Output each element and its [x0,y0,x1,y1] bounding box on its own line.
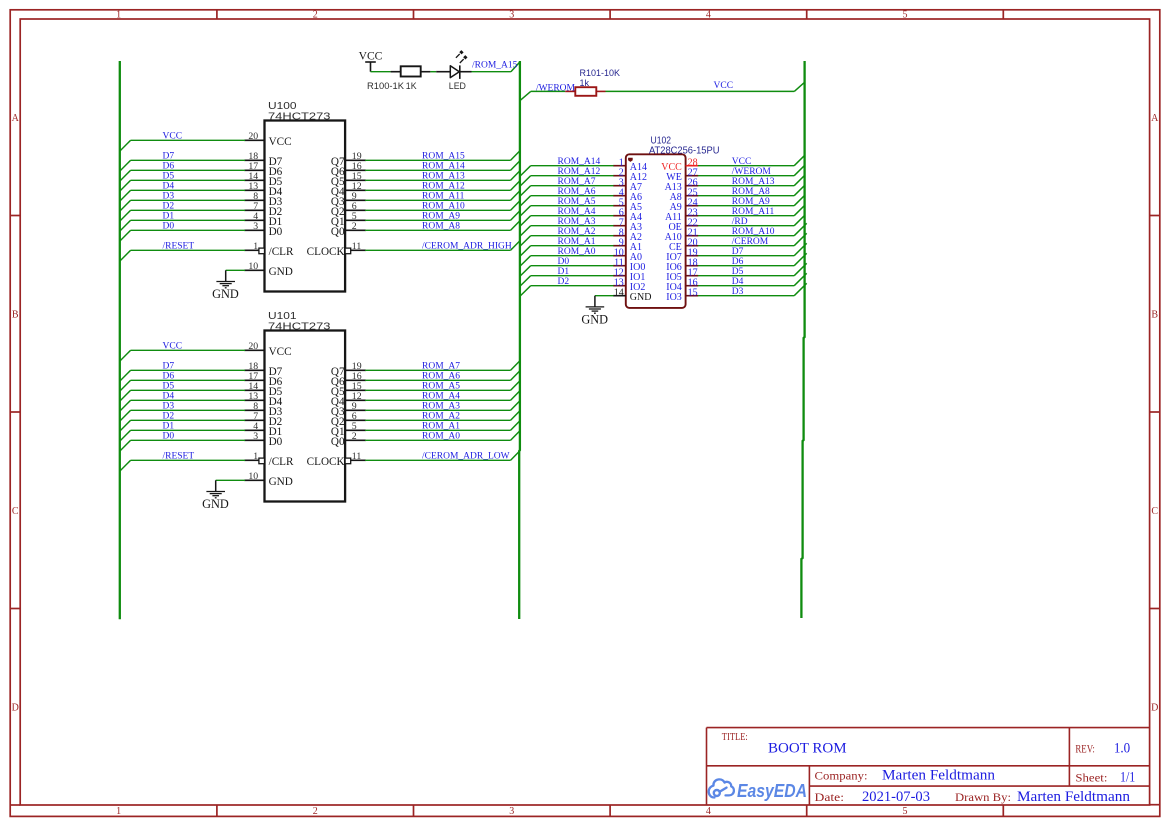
svg-text:B: B [12,309,19,320]
pin 19 Q7 of U100 with wire and net label ROM_A15 [331,150,520,168]
svg-text:VCC: VCC [163,341,183,351]
svg-text:10: 10 [248,261,258,272]
svg-text:D6: D6 [732,257,744,267]
svg-text:D0: D0 [163,431,175,441]
pin 13 IO2 of U102 with wire and net label D2 [520,277,645,296]
svg-text:ROM_A3: ROM_A3 [422,401,460,411]
svg-text:ROM_A14: ROM_A14 [422,161,465,171]
svg-text:D3: D3 [163,401,175,411]
title block [707,728,1150,805]
svg-text:1: 1 [253,451,258,462]
svg-text:ROM_A14: ROM_A14 [558,157,601,167]
svg-text:LED: LED [449,81,466,91]
svg-text:ROM_A13: ROM_A13 [732,177,775,187]
svg-text:D0: D0 [269,436,283,448]
pin 15 Q5 of U100 with wire and net label ROM_A13 [331,170,520,188]
svg-text:ROM_A11: ROM_A11 [422,191,465,201]
pin 1 /CLR of U100 with wire and net label /RESET [120,241,294,261]
wire bus to R101 with net label /WEROM [520,84,575,101]
pin 10 GND of U101 with ground symbol [202,471,293,511]
svg-text:/CEROM_ADR_LOW: /CEROM_ADR_LOW [422,451,510,461]
svg-text:D0: D0 [163,221,175,231]
pin 3 A7 of U102 with wire and net label ROM_A7 [520,177,642,196]
pin 18 D7 of U100 with wire and net label D7 [120,151,283,171]
svg-text:ROM_A9: ROM_A9 [422,211,460,221]
pin 10 A0 of U102 with wire and net label ROM_A0 [520,247,642,266]
svg-text:Sheet:: Sheet: [1075,771,1107,785]
pin 14 D5 of U100 with wire and net label D5 [120,171,283,191]
svg-text:C: C [1151,506,1158,517]
svg-text:74HCT273: 74HCT273 [268,320,331,332]
EasyEDA logo [709,779,807,801]
svg-text:D3: D3 [163,191,175,201]
svg-text:B: B [1151,309,1158,320]
svg-text:EasyEDA: EasyEDA [737,780,807,801]
svg-text:D1: D1 [163,421,175,431]
svg-text:/WEROM: /WEROM [732,167,772,177]
pin 26 A13 of U102 with wire and net label ROM_A13 [665,176,805,193]
pin 8 A2 of U102 with wire and net label ROM_A2 [520,227,642,246]
svg-text:ROM_A11: ROM_A11 [732,207,775,217]
svg-text:R101-10K: R101-10K [580,68,621,78]
pin 16 Q6 of U101 with wire and net label ROM_A6 [331,370,520,388]
resistor R100-1K 1K [367,66,430,91]
svg-text:A: A [1151,113,1159,124]
pin 2 A12 of U102 with wire and net label ROM_A12 [520,167,647,186]
pin 11 CLOCK of U100 with wire and net label /CEROM_ADR_HIGH [307,240,521,258]
svg-text:VCC: VCC [269,346,292,358]
svg-text:1.0: 1.0 [1114,741,1130,757]
pin 19 IO7 of U102 with wire and net label D7 [666,243,806,263]
svg-text:1k: 1k [580,78,590,88]
svg-text:ROM_A2: ROM_A2 [422,411,460,421]
IC U102 AT28C256-15PU [626,136,720,308]
svg-text:GND: GND [269,476,293,488]
svg-text:Marten Feldtmann: Marten Feldtmann [1017,789,1130,805]
svg-text:ROM_A1: ROM_A1 [558,237,596,247]
pin 1 A14 of U102 with wire and net label ROM_A14 [520,157,647,176]
IC U101 74HCT273 [265,310,346,501]
svg-text:ROM_A4: ROM_A4 [558,207,596,217]
wire R100 to LED [430,71,436,73]
svg-text:IO3: IO3 [666,292,682,303]
svg-text:2: 2 [352,431,357,442]
svg-text:TITLE:: TITLE: [722,732,748,743]
LED diode [436,51,471,91]
svg-text:D7: D7 [163,151,175,161]
svg-text:ROM_A10: ROM_A10 [422,201,465,211]
pin 8 D3 of U101 with wire and net label D3 [120,401,283,421]
pin 7 D2 of U101 with wire and net label D2 [120,411,282,431]
pin 17 IO5 of U102 with wire and net label D5 [666,263,806,283]
svg-text:Drawn By:: Drawn By: [955,790,1011,804]
svg-text:3: 3 [509,9,514,20]
svg-text:ROM_A1: ROM_A1 [422,421,460,431]
sheet field [1075,770,1135,786]
svg-text:ROM_A2: ROM_A2 [558,227,596,237]
svg-text:CLOCK: CLOCK [307,456,345,468]
pin 9 Q3 of U101 with wire and net label ROM_A3 [331,400,520,418]
svg-text:GND: GND [212,287,239,301]
pin 20 CE of U102 with wire and net label /CEROM [669,233,807,253]
pin 18 IO6 of U102 with wire and net label D6 [666,253,806,273]
wire middle vertical bus [518,61,521,619]
svg-text:Marten Feldtmann: Marten Feldtmann [882,768,995,784]
svg-text:D7: D7 [163,361,175,371]
svg-text:D: D [12,702,19,713]
svg-text:AT28C256-15PU: AT28C256-15PU [649,146,720,157]
svg-text:3: 3 [253,431,258,442]
wire R101 to right bus with net label VCC [606,81,805,92]
pin 3 D0 of U101 with wire and net label D0 [120,431,283,451]
svg-text:D2: D2 [163,411,175,421]
svg-text:D5: D5 [732,267,744,277]
svg-text:/RD: /RD [732,217,748,227]
pin 17 D6 of U101 with wire and net label D6 [120,371,283,391]
pin 9 A1 of U102 with wire and net label ROM_A1 [520,237,642,256]
svg-text:D0: D0 [269,226,283,238]
svg-text:Q0: Q0 [331,436,345,448]
svg-text:1K: 1K [406,81,417,91]
svg-text:R100-1K: R100-1K [367,81,404,91]
pin 4 D1 of U100 with wire and net label D1 [120,211,282,231]
svg-text:14: 14 [614,287,624,298]
wire VCC to R100 [371,71,391,73]
svg-text:VCC: VCC [269,136,292,148]
svg-text:ROM_A6: ROM_A6 [422,371,460,381]
svg-text:D6: D6 [163,371,175,381]
pin 15 IO3 of U102 with wire and net label D3 [666,283,806,303]
pin 18 D7 of U101 with wire and net label D7 [120,361,283,381]
svg-text:ROM_A3: ROM_A3 [558,217,596,227]
pin 28 VCC of U102 with wire and net label VCC [661,156,804,173]
wire left vertical bus [119,61,121,619]
pin 14 D5 of U101 with wire and net label D5 [120,381,283,401]
svg-text:GND: GND [630,292,652,303]
pin 5 A5 of U102 with wire and net label ROM_A5 [520,197,642,216]
pin 4 A6 of U102 with wire and net label ROM_A6 [520,187,642,206]
drawn-by field [955,789,1130,805]
svg-text:/RESET: /RESET [163,241,195,251]
svg-text:5: 5 [903,9,908,20]
svg-text:D1: D1 [163,211,175,221]
pin 7 A3 of U102 with wire and net label ROM_A3 [520,217,642,236]
svg-text:/CLR: /CLR [269,456,294,468]
pin 21 A10 of U102 with wire and net label ROM_A10 [665,223,807,243]
pin 12 Q4 of U101 with wire and net label ROM_A4 [331,390,520,408]
svg-text:D5: D5 [163,171,175,181]
company field [815,768,996,784]
svg-text:D4: D4 [163,181,175,191]
pin 6 Q2 of U101 with wire and net label ROM_A2 [331,410,520,428]
svg-text:D: D [1151,702,1158,713]
rev field [1075,741,1130,757]
svg-text:ROM_A9: ROM_A9 [732,197,770,207]
svg-text:15: 15 [688,287,698,298]
pin 9 Q3 of U100 with wire and net label ROM_A11 [331,190,520,208]
pin 5 Q1 of U100 with wire and net label ROM_A9 [331,210,520,228]
svg-text:/RESET: /RESET [163,451,195,461]
svg-text:D5: D5 [163,381,175,391]
svg-text:20: 20 [248,341,258,352]
svg-text:1/1: 1/1 [1120,770,1135,786]
svg-text:A: A [12,113,20,124]
svg-text:CLOCK: CLOCK [307,246,345,258]
svg-text:ROM_A5: ROM_A5 [422,381,460,391]
wire LED to bus with net label /ROM_A15 [472,61,520,72]
pin 27 WE of U102 with wire and net label /WEROM [666,166,804,183]
svg-text:4: 4 [706,9,711,20]
pin 6 A4 of U102 with wire and net label ROM_A4 [520,207,642,226]
svg-text:4: 4 [706,806,711,817]
svg-text:ROM_A13: ROM_A13 [422,171,465,181]
svg-text:GND: GND [202,497,229,511]
svg-text:11: 11 [352,451,362,462]
svg-text:20: 20 [248,131,258,142]
pin 6 Q2 of U100 with wire and net label ROM_A10 [331,200,520,218]
pin 22 OE of U102 with wire and net label /RD [668,216,804,233]
pin 20 VCC of U100 with wire and net label VCC [120,131,292,151]
pin 5 Q1 of U101 with wire and net label ROM_A1 [331,420,520,438]
pin 11 IO0 of U102 with wire and net label D0 [520,257,645,276]
svg-text:2: 2 [352,221,357,232]
svg-text:D6: D6 [163,161,175,171]
svg-text:ROM_A7: ROM_A7 [422,361,460,371]
svg-text:ROM_A10: ROM_A10 [732,227,775,237]
svg-text:Q0: Q0 [331,226,345,238]
pin 20 VCC of U101 with wire and net label VCC [120,341,292,361]
svg-text:VCC: VCC [732,157,752,167]
svg-text:/ROM_A15: /ROM_A15 [472,61,518,71]
svg-text:VCC: VCC [359,50,383,63]
svg-text:Date:: Date: [815,790,845,804]
svg-text:/CEROM_ADR_HIGH: /CEROM_ADR_HIGH [422,241,512,251]
pin 12 Q4 of U100 with wire and net label ROM_A12 [331,180,520,198]
pin 24 A9 of U102 with wire and net label ROM_A9 [670,196,805,213]
title text TITLE: BOOT ROM [722,732,847,757]
IC U100 74HCT273 [265,100,346,291]
pin 25 A8 of U102 with wire and net label ROM_A8 [670,186,805,203]
svg-text:ROM_A7: ROM_A7 [558,177,596,187]
svg-text:D2: D2 [558,277,570,287]
svg-text:11: 11 [352,241,362,252]
svg-text:2: 2 [313,806,318,817]
svg-text:D3: D3 [732,287,744,297]
pin 12 IO1 of U102 with wire and net label D1 [520,267,645,286]
pin 3 D0 of U100 with wire and net label D0 [120,221,283,241]
pin 17 D6 of U100 with wire and net label D6 [120,161,283,181]
svg-text:/CLR: /CLR [269,246,294,258]
pin 4 D1 of U101 with wire and net label D1 [120,421,282,441]
pin 23 A11 of U102 with wire and net label ROM_A11 [665,206,804,223]
svg-text:ROM_A4: ROM_A4 [422,391,460,401]
svg-text:74HCT273: 74HCT273 [268,110,331,122]
svg-text:ROM_A12: ROM_A12 [558,167,601,177]
svg-text:3: 3 [253,221,258,232]
pin 10 GND of U100 with ground symbol [212,261,293,301]
svg-text:10: 10 [248,471,258,482]
svg-text:C: C [12,506,19,517]
svg-text:2021-07-03: 2021-07-03 [862,789,930,805]
svg-text:ROM_A0: ROM_A0 [558,247,596,257]
svg-text:D0: D0 [558,257,570,267]
pin 8 D3 of U100 with wire and net label D3 [120,191,283,211]
svg-text:ROM_A0: ROM_A0 [422,431,460,441]
pin 13 D4 of U100 with wire and net label D4 [120,181,283,201]
svg-text:ROM_A12: ROM_A12 [422,181,465,191]
svg-text:ROM_A8: ROM_A8 [422,221,460,231]
pin 15 Q5 of U101 with wire and net label ROM_A5 [331,380,520,398]
svg-text:D4: D4 [163,391,175,401]
pin 16 IO4 of U102 with wire and net label D4 [666,273,806,293]
svg-text:3: 3 [509,806,514,817]
svg-text:ROM_A8: ROM_A8 [732,187,770,197]
power symbol VCC [359,50,383,72]
svg-text:GND: GND [581,312,608,326]
svg-text:D1: D1 [558,267,570,277]
svg-text:VCC: VCC [714,81,734,91]
pin 14 GND of U102 with ground symbol [581,287,651,326]
svg-text:ROM_A5: ROM_A5 [558,197,596,207]
svg-text:1: 1 [116,806,121,817]
pin 2 Q0 of U100 with wire and net label ROM_A8 [331,220,520,238]
svg-text:Company:: Company: [815,769,868,783]
wire right vertical bus [801,61,804,618]
svg-text:BOOT ROM: BOOT ROM [768,741,847,757]
svg-text:1: 1 [253,241,258,252]
svg-text:ROM_A15: ROM_A15 [422,151,465,161]
resistor R101-10K 1k [565,68,620,96]
svg-text:ROM_A6: ROM_A6 [558,187,596,197]
svg-text:D4: D4 [732,277,744,287]
pin 11 CLOCK of U101 with wire and net label /CEROM_ADR_LOW [307,450,521,468]
pin 1 /CLR of U101 with wire and net label /RESET [120,451,294,471]
pin 2 Q0 of U101 with wire and net label ROM_A0 [331,430,520,448]
pin 19 Q7 of U101 with wire and net label ROM_A7 [331,360,520,378]
svg-text:2: 2 [313,9,318,20]
pin 13 D4 of U101 with wire and net label D4 [120,391,283,411]
svg-text:REV:: REV: [1075,742,1095,756]
date field [815,789,931,805]
svg-text:VCC: VCC [163,131,183,141]
svg-text:D2: D2 [163,201,175,211]
svg-text:5: 5 [903,806,908,817]
svg-text:1: 1 [116,9,121,20]
svg-text:D7: D7 [732,247,744,257]
svg-text:/CEROM: /CEROM [732,237,769,247]
svg-text:GND: GND [269,266,293,278]
pin 7 D2 of U100 with wire and net label D2 [120,201,282,221]
pin 16 Q6 of U100 with wire and net label ROM_A14 [331,160,520,178]
